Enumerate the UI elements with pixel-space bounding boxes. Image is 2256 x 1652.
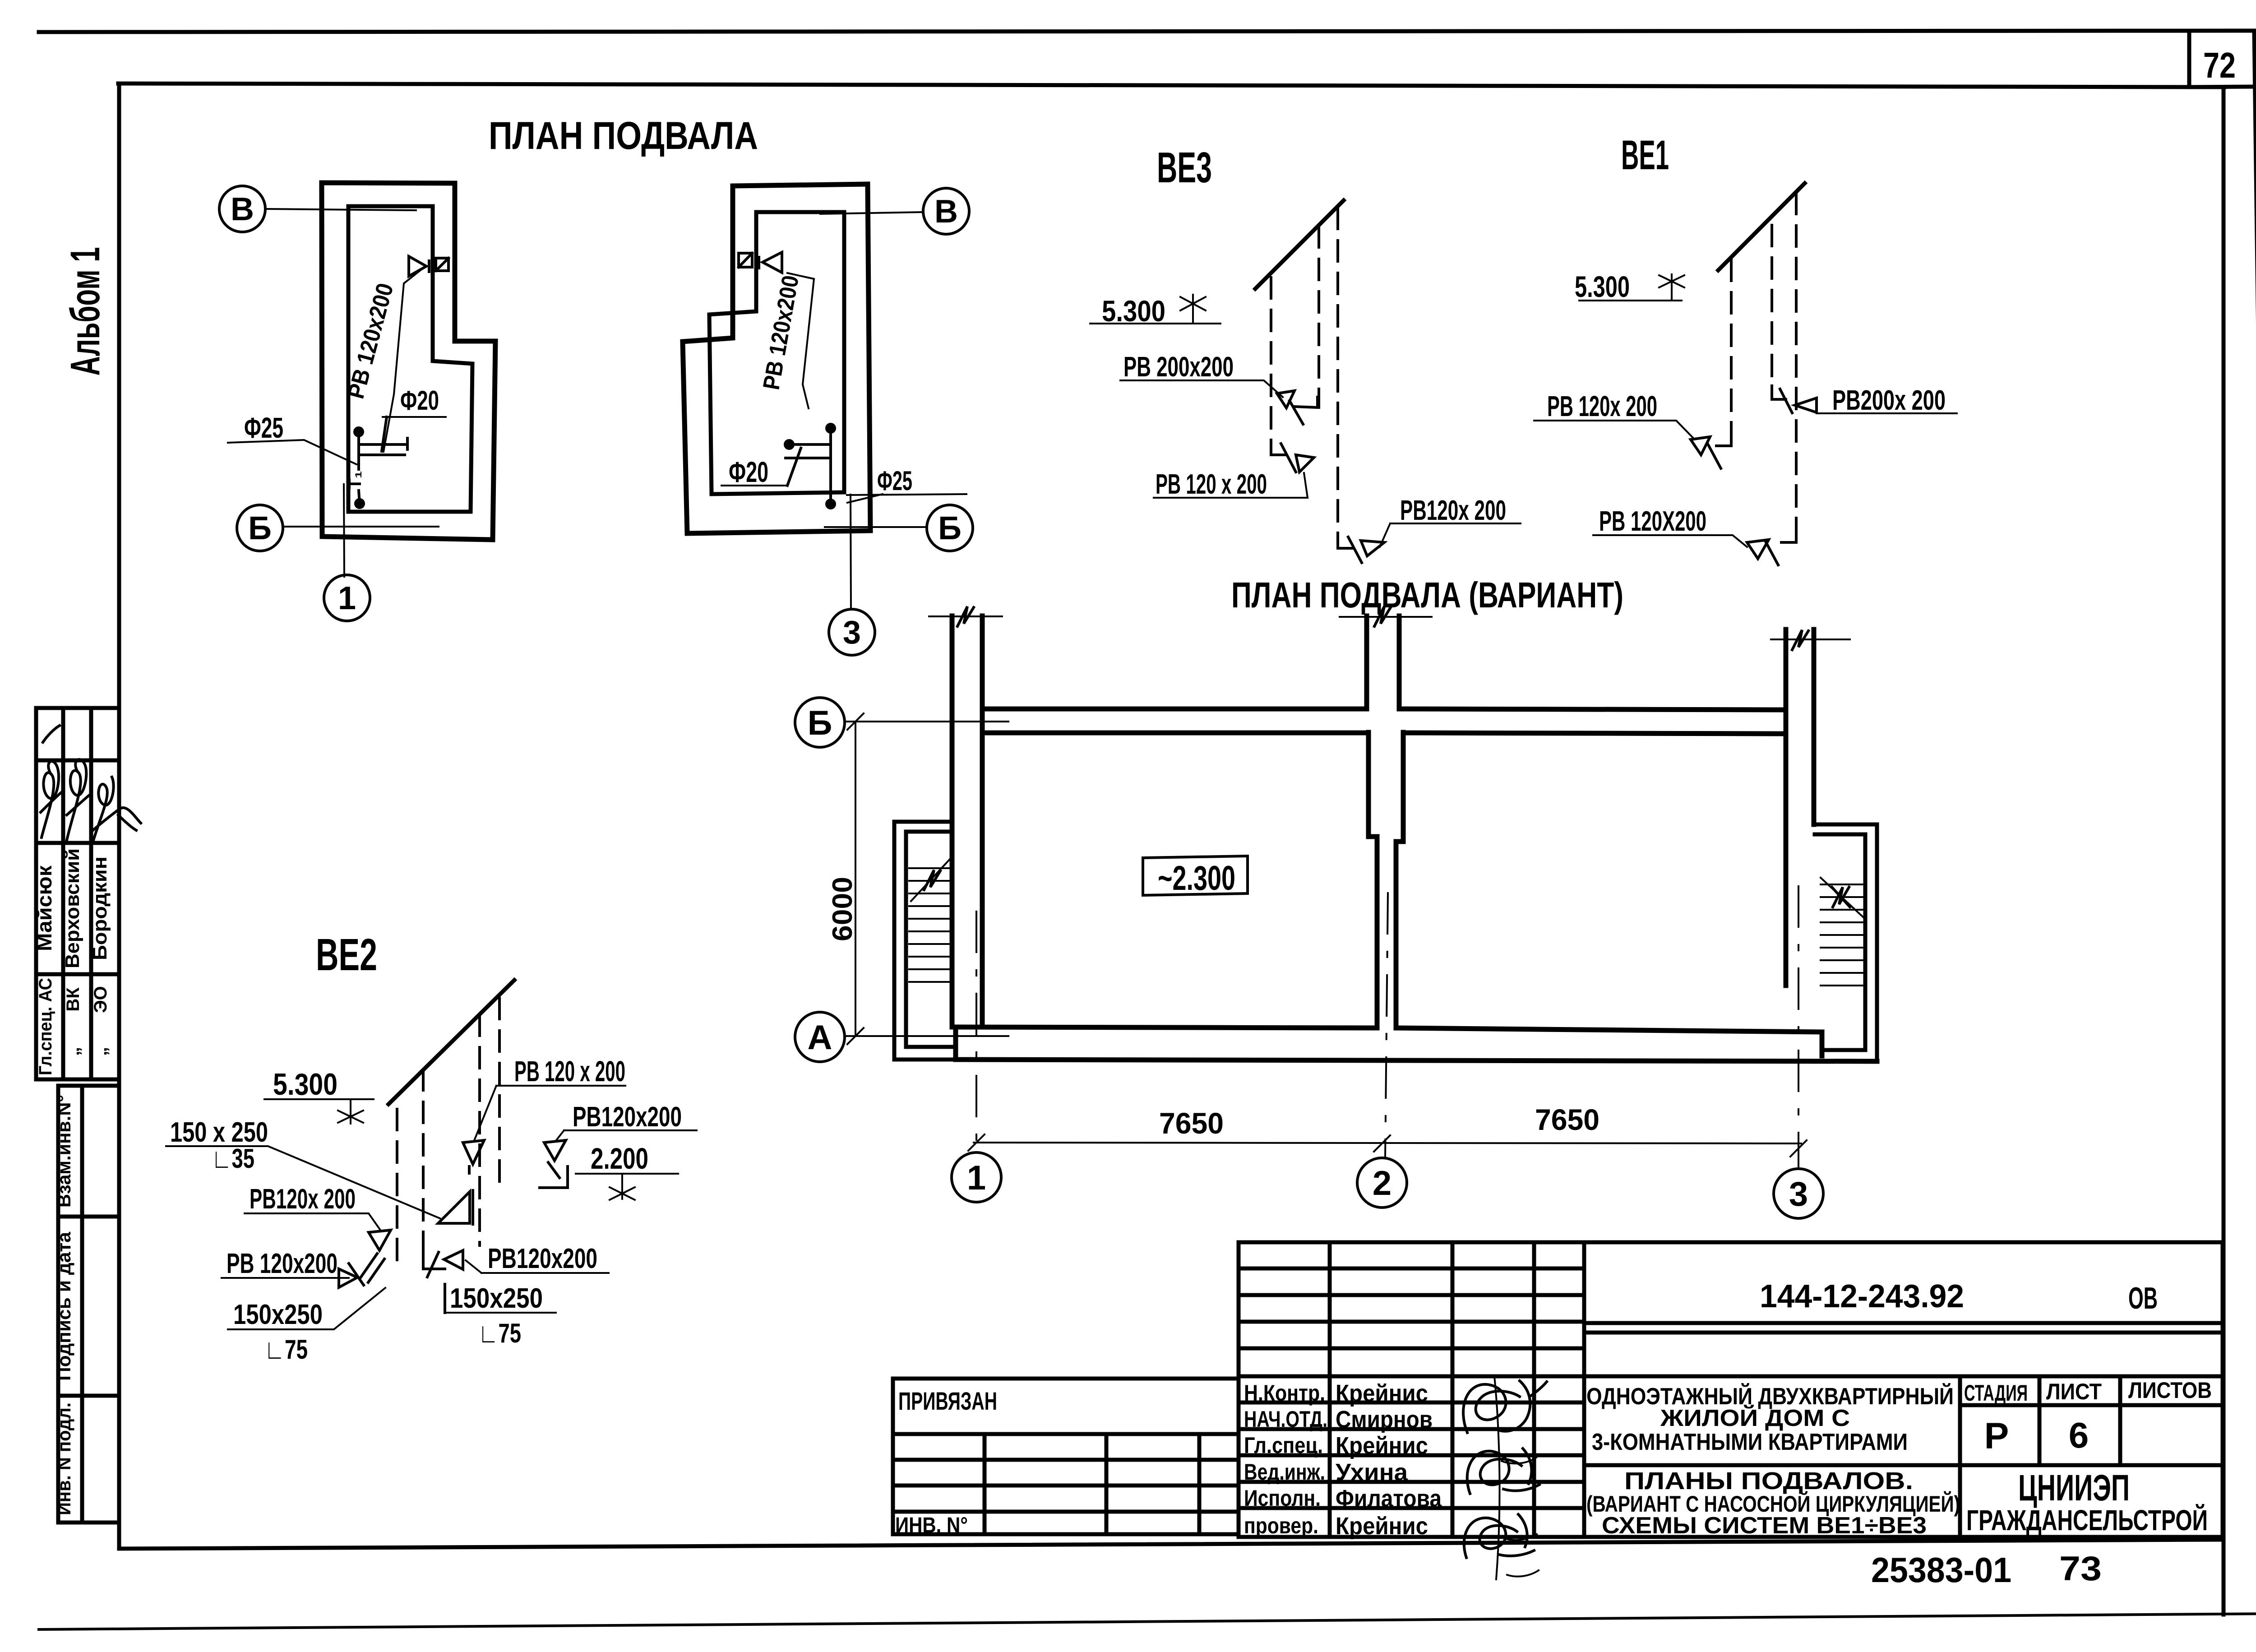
axis circle Б main	[795, 698, 845, 747]
title block vertical dividers	[1330, 1242, 1584, 1537]
BE1 riser 1 elbow	[1708, 431, 1731, 468]
right stair diagonal	[1821, 878, 1863, 917]
main plan wall Б lower line	[982, 733, 1786, 734]
title block signatures scribble	[1463, 1381, 1547, 1433]
horizontal dimension line 7650+7650	[968, 1134, 1807, 1157]
svg-text:„: „	[91, 1047, 111, 1056]
BE2 left break marks	[349, 1254, 384, 1285]
svg-text:2: 2	[1373, 1164, 1392, 1203]
BE3 riser 2 dashed	[1318, 227, 1320, 407]
small plan 1 axis circle Б	[237, 505, 283, 551]
title block name row lines	[1239, 1376, 2223, 1508]
svg-text:ЖИЛОЙ ДОМ С: ЖИЛОЙ ДОМ С	[1660, 1405, 1850, 1431]
svg-text:5.300: 5.300	[1102, 294, 1165, 328]
BE3 riser 1 valve	[1296, 455, 1314, 472]
svg-text:ПЛАНЫ ПОДВАЛОВ.: ПЛАНЫ ПОДВАЛОВ.	[1624, 1467, 1913, 1495]
svg-text:А: А	[808, 1018, 832, 1057]
BE2 riser 4 dashed	[498, 998, 501, 1189]
svg-text:3: 3	[843, 615, 861, 651]
level box -2.300	[1143, 856, 1248, 895]
svg-text:РВ120х 200: РВ120х 200	[1400, 495, 1506, 526]
main plan wall axis2 upper stub	[1367, 616, 1399, 709]
svg-text:провер.: провер.	[1244, 1513, 1318, 1538]
BE3 riser 3 valve	[1361, 541, 1384, 556]
svg-text:ПЛАН ПОДВАЛА (ВАРИАНТ): ПЛАН ПОДВАЛА (ВАРИАНТ)	[1231, 575, 1623, 615]
title block number row lines	[1584, 1323, 2223, 1333]
small plan 2 pipes	[825, 423, 836, 434]
svg-text:1: 1	[338, 580, 356, 616]
svg-text:Верховский: Верховский	[61, 848, 83, 968]
svg-text:Ф25: Ф25	[877, 466, 912, 496]
svg-text:6: 6	[2069, 1415, 2089, 1455]
drawing frame bottom line	[119, 1540, 2224, 1549]
axis circle 3 main	[1774, 1169, 1823, 1218]
svg-text:Бородкин: Бородкин	[89, 856, 111, 960]
svg-text:1: 1	[967, 1159, 986, 1197]
axis line 3 main	[1798, 886, 1799, 1169]
main plan wall axis2 lower	[1368, 732, 1403, 1028]
BE1 riser 3 dashed	[1795, 193, 1798, 541]
svg-text:В: В	[934, 194, 958, 230]
small plan 2 axis line Б	[825, 526, 927, 528]
axis circle 2 main	[1357, 1158, 1407, 1208]
small plan 1 inner wall	[348, 206, 472, 512]
left stair enclosure inner	[906, 832, 952, 1047]
sheet top border line	[39, 31, 2254, 32]
BE3 riser 2 elbow	[1290, 397, 1318, 424]
BE3 riser 1 elbow	[1271, 440, 1296, 472]
main plan wall А lower line	[956, 1027, 1877, 1061]
small plan 1 axis line В	[265, 209, 416, 210]
BE2 valve bottom right	[427, 1250, 463, 1277]
svg-text:72: 72	[2203, 45, 2236, 85]
BE2 riser 2 dashed	[422, 1069, 425, 1266]
svg-text:РВ200х 200: РВ200х 200	[1832, 385, 1946, 416]
small plan 2 axis circle 3	[829, 609, 875, 655]
BE2 right elbow	[540, 1162, 568, 1188]
small plan 1 vent grille triangle	[409, 256, 429, 276]
main plan wall axis2 break	[1340, 616, 1432, 618]
svg-text:2.200: 2.200	[591, 1142, 648, 1175]
main plan wall А upper line	[956, 1027, 1822, 1056]
stamp dash mark	[43, 726, 60, 742]
signature scribble Верховский	[67, 759, 89, 840]
svg-text:7650: 7650	[1159, 1106, 1224, 1140]
BE2 riser 1 dashed	[396, 1109, 398, 1266]
svg-text:Гл.спец. АС: Гл.спец. АС	[36, 978, 55, 1075]
svg-text:Инв. N подл.: Инв. N подл.	[53, 1402, 74, 1515]
svg-text:ОВ: ОВ	[2128, 1281, 2158, 1315]
svg-text:Гл.спец.: Гл.спец.	[1244, 1433, 1323, 1458]
svg-text:ЦНИИЭП: ЦНИИЭП	[2018, 1467, 2130, 1509]
svg-text:Исполн.: Исполн.	[1244, 1485, 1321, 1511]
sheet bottom border line	[39, 1614, 2256, 1629]
svg-text:СХЕМЫ СИСТЕМ ВЕ1÷ВЕ3: СХЕМЫ СИСТЕМ ВЕ1÷ВЕ3	[1602, 1513, 1927, 1539]
svg-text:Ф20: Ф20	[400, 385, 439, 416]
svg-text:Подпись и дата: Подпись и дата	[53, 1231, 74, 1381]
BE3 riser 2 valve	[1277, 391, 1294, 408]
svg-text:∟35: ∟35	[212, 1143, 254, 1174]
svg-text:Взам.инв.N°: Взам.инв.N°	[53, 1095, 74, 1208]
svg-text:РВ 120Х200: РВ 120Х200	[1599, 506, 1706, 537]
svg-text:РВ 120х200: РВ 120х200	[227, 1248, 337, 1279]
svg-text:РВ120х200: РВ120х200	[573, 1101, 682, 1133]
BE2 valve center	[463, 1140, 484, 1173]
svg-text:Б: Б	[938, 510, 962, 546]
svg-text:Б: Б	[808, 704, 832, 742]
main plan wall axis3 break	[1771, 639, 1850, 640]
small plan 1 outer wall	[322, 183, 495, 540]
right stair treads	[1821, 884, 1865, 986]
drawing frame right line	[2222, 87, 2226, 1615]
left stair enclosure outer	[894, 822, 956, 1060]
svg-text:Н.Контр.: Н.Контр.	[1244, 1380, 1325, 1406]
small plan 1 vent box	[436, 258, 448, 271]
attach table ПРИВЯЗАН	[893, 1379, 1239, 1534]
svg-text:ПРИВЯЗАН: ПРИВЯЗАН	[898, 1387, 997, 1415]
axis line Б main	[845, 713, 1008, 730]
BE1 riser 1 dashed	[1730, 260, 1733, 443]
svg-text:5.300: 5.300	[273, 1067, 337, 1101]
svg-text:Р: Р	[1984, 1416, 2009, 1457]
svg-text:РВ120х200: РВ120х200	[488, 1243, 597, 1274]
axis circle А main	[795, 1012, 845, 1062]
svg-text:3-КОМНАТНЫМИ КВАРТИРАМИ: 3-КОМНАТНЫМИ КВАРТИРАМИ	[1592, 1429, 1908, 1455]
left stair treads	[909, 868, 951, 982]
axis line 2 main	[1385, 893, 1388, 1158]
box Подпись и дата	[58, 1217, 118, 1396]
small plan 2 vent grille triangle	[759, 252, 782, 273]
svg-text:Альбом 1: Альбом 1	[62, 247, 108, 376]
svg-text:РВ 120х 200: РВ 120х 200	[1547, 390, 1657, 422]
svg-text:25383-01: 25383-01	[1871, 1550, 2011, 1590]
svg-text:СТАДИЯ: СТАДИЯ	[1964, 1380, 2028, 1406]
small plan 2 vent box	[739, 253, 752, 267]
svg-text:Вед.инж.: Вед.инж.	[1244, 1459, 1325, 1485]
svg-text:Ухина: Ухина	[1336, 1459, 1408, 1486]
BE3 riser 1 dashed	[1270, 278, 1272, 451]
BE2 damper triangle	[438, 1190, 473, 1224]
svg-text:Ф25: Ф25	[244, 412, 283, 444]
main plan wall axis1 break	[929, 615, 1002, 617]
svg-text:144-12-243.92: 144-12-243.92	[1760, 1278, 1964, 1314]
BE3 riser 3 dashed	[1336, 208, 1339, 547]
svg-text:ГРАЖДАНСЕЛЬСТРОЙ: ГРАЖДАНСЕЛЬСТРОЙ	[1966, 1504, 2208, 1536]
svg-text:ЛИСТОВ: ЛИСТОВ	[2128, 1378, 2212, 1403]
svg-text:Крейнис: Крейнис	[1336, 1513, 1428, 1540]
BE2 valve small lower left	[339, 1269, 357, 1287]
axis line 1 main	[975, 912, 977, 1152]
BE1 riser 3 valve	[1747, 540, 1769, 559]
title block stage columns	[1584, 1376, 2223, 1537]
svg-text:ВЕ2: ВЕ2	[316, 930, 377, 980]
svg-text:РВ 200х200: РВ 200х200	[1123, 352, 1234, 383]
small plan 1 axis line 1	[344, 484, 344, 577]
stamp table grid (left margin signatures)	[36, 708, 118, 1079]
signature scribble Бородкин	[93, 777, 141, 842]
BE1 roof line	[1718, 183, 1805, 270]
svg-text:Б: Б	[248, 510, 272, 546]
BE1 riser 1 valve	[1691, 437, 1710, 455]
box Инв. N подл.	[58, 1396, 118, 1522]
svg-text:ИНВ. N°: ИНВ. N°	[895, 1513, 968, 1537]
small plan 2 axis line В	[820, 212, 923, 214]
svg-text:ЭО: ЭО	[91, 986, 111, 1013]
BE1 riser 2 elbow	[1772, 386, 1792, 413]
vertical dimension line 6000	[855, 722, 856, 1036]
left stair diagonal	[911, 858, 951, 901]
right stair enclosure outer	[1814, 824, 1877, 1061]
right stair enclosure inner	[1815, 834, 1865, 1050]
svg-text:Майсюк: Майсюк	[32, 865, 56, 951]
BE2 riser 3 dashed	[478, 1015, 481, 1245]
svg-text:Крейнис: Крейнис	[1336, 1432, 1428, 1459]
svg-text:Смирнов: Смирнов	[1336, 1406, 1433, 1433]
svg-text:∟75: ∟75	[478, 1318, 521, 1348]
small plan 2 axis line 3	[851, 495, 851, 609]
svg-text:РВ 120 х 200: РВ 120 х 200	[1156, 469, 1267, 500]
axis circle 1 main	[952, 1152, 1001, 1202]
svg-text:6000: 6000	[827, 877, 858, 941]
title block outer and grid	[1239, 1242, 2223, 1537]
small plan 2 axis circle В	[923, 188, 969, 234]
BE2 valve left mid	[369, 1230, 391, 1250]
signature scribble Майсюк	[41, 761, 61, 838]
svg-text:~2.300: ~2.300	[1158, 859, 1235, 898]
small plan 1 axis line Б	[283, 526, 439, 528]
small plan 1 duct leader	[384, 268, 423, 452]
svg-text:ВК: ВК	[63, 987, 83, 1012]
svg-text:7650: 7650	[1535, 1103, 1600, 1136]
svg-text:РВ 120 х 200: РВ 120 х 200	[514, 1055, 625, 1087]
svg-text:НАЧ.ОТД.: НАЧ.ОТД.	[1244, 1407, 1327, 1432]
main plan wall axis1	[952, 616, 982, 1027]
BE3 roof line	[1255, 200, 1344, 289]
svg-text:„: „	[63, 1047, 83, 1056]
BE1 riser 2 dashed	[1771, 225, 1773, 396]
svg-text:ВЕ1: ВЕ1	[1621, 132, 1669, 178]
box Взам.инв.N	[58, 1086, 118, 1217]
svg-text:ВЕ3: ВЕ3	[1157, 143, 1212, 192]
svg-text:ЛИСТ: ЛИСТ	[2046, 1379, 2102, 1404]
small plan 1 axis circle 1	[324, 575, 370, 621]
svg-text:РВ120х 200: РВ120х 200	[250, 1184, 356, 1215]
BE2 roof line	[388, 980, 514, 1104]
BE1 riser 2 valve	[1795, 398, 1817, 412]
BE2 valve right	[544, 1140, 566, 1161]
svg-text:Ф20: Ф20	[729, 456, 768, 488]
sheet right border line	[2254, 31, 2256, 1614]
main plan wall Б upper line	[982, 709, 1786, 710]
title block upper small grid rows	[1239, 1268, 1584, 1348]
drawing frame left line	[117, 83, 121, 1549]
svg-text:150х250: 150х250	[233, 1299, 323, 1330]
page number box 72	[2189, 32, 2253, 87]
svg-text:5.300: 5.300	[1575, 270, 1630, 303]
svg-text:Крейнис: Крейнис	[1336, 1380, 1428, 1407]
BE2 bottom elbow	[423, 1254, 445, 1313]
small plan 2 outer wall	[683, 184, 870, 533]
svg-text:73: 73	[2059, 1550, 2102, 1588]
BE1 riser 3 elbow	[1766, 529, 1796, 565]
main plan wall axis3	[1786, 629, 1814, 986]
svg-text:Т₁: Т₁	[345, 471, 365, 490]
small plan 2 duct leader	[787, 273, 814, 408]
axis line А main	[845, 1028, 1008, 1044]
small plan 2 axis circle Б	[927, 505, 973, 551]
small plan 1 axis circle В	[219, 186, 265, 232]
small plan 1 pipes	[353, 426, 364, 437]
svg-text:150х250: 150х250	[450, 1283, 543, 1314]
svg-text:Филатова: Филатова	[1336, 1485, 1442, 1512]
svg-text:∟75: ∟75	[264, 1334, 308, 1365]
svg-text:ПЛАН ПОДВАЛА: ПЛАН ПОДВАЛА	[489, 114, 758, 157]
svg-text:В: В	[231, 191, 254, 227]
drawing frame top line	[118, 83, 2224, 87]
svg-text:3: 3	[1789, 1175, 1808, 1213]
BE3 riser 3 elbow	[1338, 535, 1362, 563]
small plan 2 inner wall	[709, 212, 844, 494]
